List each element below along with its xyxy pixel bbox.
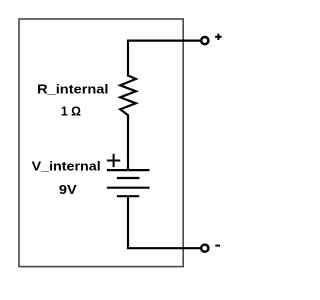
battery plate 1 (long) [107, 169, 150, 171]
+ label at positive terminal [215, 34, 222, 40]
wire: resistor top to + terminal [128, 41, 201, 77]
battery plate 3 (long) [107, 187, 150, 189]
battery plate 4 (short) [117, 195, 139, 197]
svg-text:9V: 9V [59, 183, 77, 197]
enclosure box [19, 19, 183, 267]
- label at negative terminal [215, 245, 220, 247]
wire: resistor bottom to battery top [127, 115, 129, 171]
terminal + (circle) [201, 37, 208, 44]
battery + sign [107, 154, 120, 167]
svg-text:V_internal: V_internal [32, 159, 101, 173]
resistor R1 zigzag [120, 76, 136, 116]
svg-text:1 Ω: 1 Ω [61, 105, 81, 119]
battery plate 2 (short) [117, 177, 139, 179]
wire: battery bottom to - terminal [128, 196, 201, 248]
svg-text:R_internal: R_internal [37, 83, 108, 97]
terminal - (circle) [201, 245, 208, 252]
